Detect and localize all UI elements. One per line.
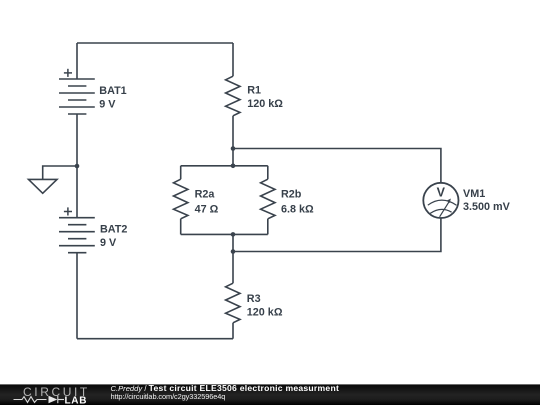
wire top-left vertical (BAT1 plus to top rail): [76, 43, 78, 79]
voltmeter VM1 body: [423, 183, 458, 218]
ground: [29, 179, 58, 193]
wire BAT2 bottom lead: [76, 253, 78, 339]
resistor R2b: [261, 179, 275, 219]
svg-text:V: V: [437, 186, 446, 200]
svg-text:120 kΩ: 120 kΩ: [247, 98, 283, 110]
voltmeter VM1 scale arcs: [428, 200, 457, 213]
logo resistor zigzag and diode: [14, 396, 65, 403]
wire parallel top rail: [181, 165, 268, 167]
svg-text:R2b: R2b: [281, 189, 302, 201]
svg-text:R3: R3: [247, 293, 261, 305]
svg-text:R2a: R2a: [195, 189, 216, 201]
node junction dot (parallel bottom): [231, 232, 236, 237]
wire R3 top lead: [232, 252, 234, 284]
resistor R2a: [174, 179, 188, 219]
logo diode triangle: [49, 396, 58, 404]
wire parallel bottom to node: [232, 234, 234, 251]
battery BAT2 plates: [59, 218, 95, 253]
battery BAT1 plus sign: [64, 69, 72, 77]
wire BAT1 minus to ground node: [76, 114, 78, 166]
wire ground node to BAT2 plus: [76, 166, 78, 218]
wire R2a bottom lead: [180, 219, 182, 235]
svg-text:120 kΩ: 120 kΩ: [247, 307, 283, 319]
wire R2b top lead: [267, 166, 269, 179]
svg-text:47 Ω: 47 Ω: [195, 203, 219, 215]
battery BAT2 plus sign: [64, 207, 72, 215]
svg-text:9 V: 9 V: [100, 237, 117, 249]
wire bottom rail: [77, 338, 233, 340]
node junction dot (ground node): [75, 164, 80, 169]
svg-text:R1: R1: [247, 84, 261, 96]
wire ground stub: [43, 166, 77, 179]
svg-text:VM1: VM1: [463, 188, 485, 200]
wire top horizontal rail: [77, 42, 233, 44]
svg-text:BAT1: BAT1: [99, 85, 126, 97]
wire node to voltmeter top: [233, 149, 441, 183]
wire node to voltmeter bottom: [233, 218, 441, 252]
svg-text:6.8 kΩ: 6.8 kΩ: [281, 203, 314, 215]
footer bar: [0, 384, 540, 405]
voltmeter VM1 needle: [440, 201, 450, 217]
svg-text:http://circuitlab.com/c2gy3325: http://circuitlab.com/c2gy332596e4q: [111, 392, 226, 401]
svg-text:BAT2: BAT2: [100, 223, 127, 235]
resistor R1: [226, 76, 240, 116]
svg-text:3.500 mV: 3.500 mV: [463, 201, 511, 213]
node junction dot (meter bottom tap): [231, 249, 236, 254]
wire parallel bottom rail: [181, 233, 268, 235]
svg-text:9 V: 9 V: [99, 99, 116, 111]
wire R1 top lead: [232, 43, 234, 76]
svg-text:LAB: LAB: [65, 395, 88, 405]
node junction dot (R1 bottom / meter top tap): [231, 146, 236, 151]
voltmeter VM1 needle arrowhead: [447, 199, 451, 204]
wire node to parallel top rail: [232, 149, 234, 166]
wire R2b bottom lead: [267, 219, 269, 235]
node junction dot (parallel top): [231, 164, 236, 169]
wire R3 bottom lead: [232, 323, 234, 339]
resistor R3: [226, 283, 240, 323]
wire R1 bottom lead to node: [232, 116, 234, 149]
wire R2a top lead: [180, 166, 182, 179]
battery BAT1 plates: [59, 79, 95, 114]
